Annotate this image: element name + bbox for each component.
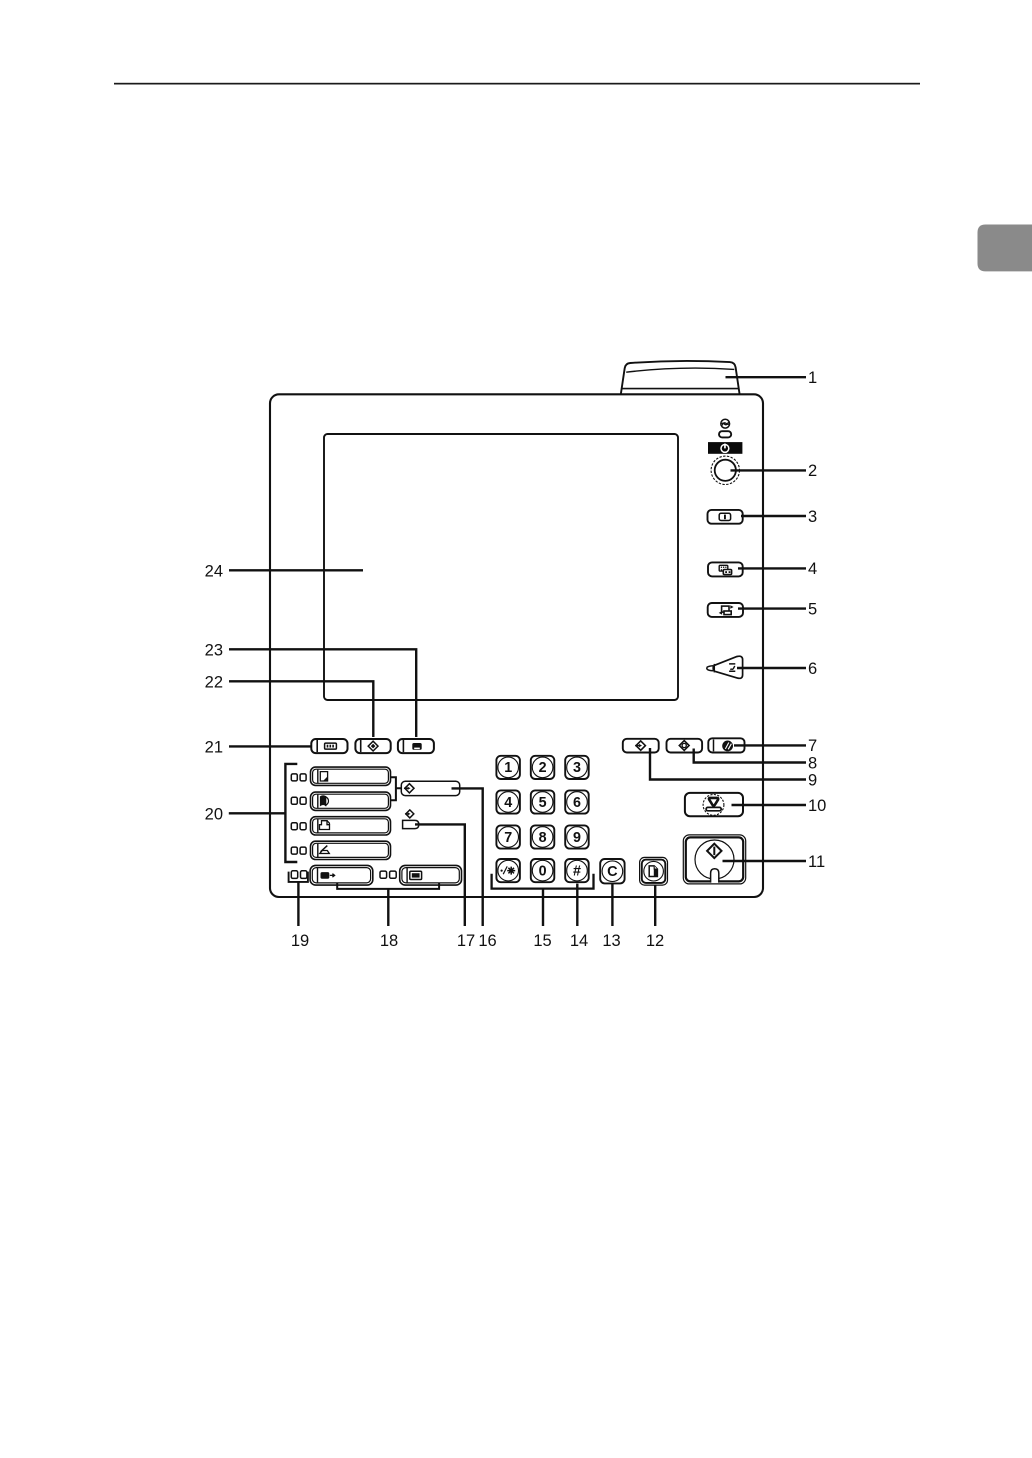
- copy icon: [320, 772, 327, 781]
- svg-text:4: 4: [504, 795, 512, 811]
- svg-text:19: 19: [291, 932, 309, 950]
- data-in indicator pair (19): [291, 871, 307, 879]
- svg-text:#: #: [573, 863, 581, 879]
- labels left column: [205, 562, 223, 823]
- function keys (20): copy / doc server / printer / scanner: [311, 767, 391, 859]
- doc server icon: [321, 796, 329, 805]
- svg-text:9: 9: [573, 830, 581, 846]
- communicating button (18b): [400, 865, 462, 885]
- numeric keypad keys 1-9,0: [496, 756, 588, 882]
- leader line 8: [694, 749, 806, 763]
- leader line 10: [732, 804, 807, 806]
- svg-text:9: 9: [808, 771, 817, 789]
- leader line 18: [387, 889, 389, 926]
- svg-text:1: 1: [504, 760, 512, 776]
- svg-text:8: 8: [539, 830, 547, 846]
- leader line 6: [737, 667, 806, 669]
- svg-text:20: 20: [205, 805, 223, 823]
- leader line 11: [723, 860, 807, 862]
- leader line 7: [734, 744, 806, 746]
- bracket under 18: [337, 883, 439, 889]
- svg-text:17: 17: [457, 932, 475, 950]
- svg-text:0: 0: [539, 863, 547, 879]
- leader line 1: [726, 376, 807, 378]
- bracket under 19: [289, 872, 308, 882]
- clear key C (13): [600, 859, 624, 883]
- labels bottom row: [291, 932, 664, 950]
- enter key (12): [640, 857, 668, 885]
- button 23 (simplified display key): [398, 739, 434, 753]
- leader line 3: [741, 515, 806, 517]
- svg-text:23: 23: [205, 641, 223, 659]
- leader line 17: [415, 824, 465, 926]
- button 5 (rotate/exchange): [708, 603, 743, 617]
- button 21 (counter key): [311, 739, 347, 753]
- button 4 (simplified display): [708, 562, 743, 576]
- communicating indicator pair: [380, 871, 396, 878]
- svg-text:11: 11: [808, 853, 825, 871]
- interrupt button (16): [401, 781, 459, 795]
- svg-text:14: 14: [570, 932, 588, 950]
- On indicator (black): [708, 442, 742, 454]
- button 3 (counter): [708, 510, 743, 524]
- svg-text:C: C: [607, 864, 618, 880]
- leader line 15: [542, 889, 544, 926]
- leader line 12: [654, 885, 656, 926]
- svg-text:3: 3: [573, 760, 581, 776]
- check indicator (6): [707, 656, 743, 678]
- panel body: [270, 394, 763, 897]
- leader line 22: [229, 681, 373, 737]
- svg-text:1: 1: [808, 369, 817, 387]
- svg-text:7: 7: [504, 830, 512, 846]
- svg-text:24: 24: [205, 562, 223, 580]
- svg-text:5: 5: [539, 795, 547, 811]
- svg-text:5: 5: [808, 600, 817, 618]
- leader line 21: [229, 745, 312, 747]
- svg-text:7: 7: [808, 737, 817, 755]
- bracket to 16: [391, 777, 402, 800]
- power indicator lamp: [719, 431, 731, 437]
- leader line 2: [731, 469, 807, 471]
- leader line 13: [611, 884, 613, 926]
- svg-text:16: 16: [478, 932, 496, 950]
- bracket 20: [285, 764, 297, 862]
- data-in button (18a): [310, 865, 373, 885]
- screen (24): [324, 434, 678, 700]
- energy indicator icon: [721, 419, 730, 428]
- scanner icon: [320, 846, 330, 854]
- power button (2): [711, 456, 739, 484]
- svg-text:8: 8: [808, 754, 817, 772]
- leader line 23: [229, 649, 416, 737]
- svg-text:2: 2: [808, 462, 817, 480]
- svg-text:13: 13: [602, 932, 620, 950]
- leader line 9: [650, 748, 806, 780]
- function key indicators: [291, 774, 306, 854]
- svg-text:6: 6: [573, 795, 581, 811]
- leader line 20: [229, 812, 286, 814]
- start button (11): [683, 835, 745, 884]
- svg-text:22: 22: [205, 673, 223, 691]
- svg-text:6: 6: [808, 660, 817, 678]
- leader line 5: [738, 607, 806, 609]
- svg-text:10: 10: [808, 797, 826, 815]
- leader line 14: [576, 884, 578, 926]
- svg-text:2: 2: [539, 760, 547, 776]
- labels right column: [808, 369, 826, 871]
- leader line 4: [738, 567, 806, 569]
- printer icon: [320, 821, 330, 830]
- interrupt indicator (17): [403, 810, 419, 829]
- button 9 (program): [623, 739, 659, 753]
- gray tab: [978, 225, 1032, 272]
- leader line 16: [452, 788, 483, 926]
- star key icon: [501, 866, 516, 874]
- svg-text:18: 18: [380, 932, 398, 950]
- svg-text:21: 21: [205, 738, 223, 756]
- svg-text:4: 4: [808, 560, 817, 578]
- keypad digits: [504, 760, 581, 879]
- button 8 (clear modes): [667, 739, 703, 753]
- leader line 24: [229, 569, 363, 571]
- bracket under keypad (15): [492, 874, 594, 889]
- svg-text:12: 12: [646, 932, 664, 950]
- svg-text:15: 15: [533, 932, 551, 950]
- button 10 (clear/stop): [685, 793, 743, 816]
- button 22 (program): [355, 739, 390, 753]
- svg-text:3: 3: [808, 508, 817, 526]
- bump (1): [621, 361, 740, 394]
- top rule: [114, 83, 920, 85]
- leader line 19: [297, 882, 299, 926]
- button 7 (energy saver): [708, 738, 744, 752]
